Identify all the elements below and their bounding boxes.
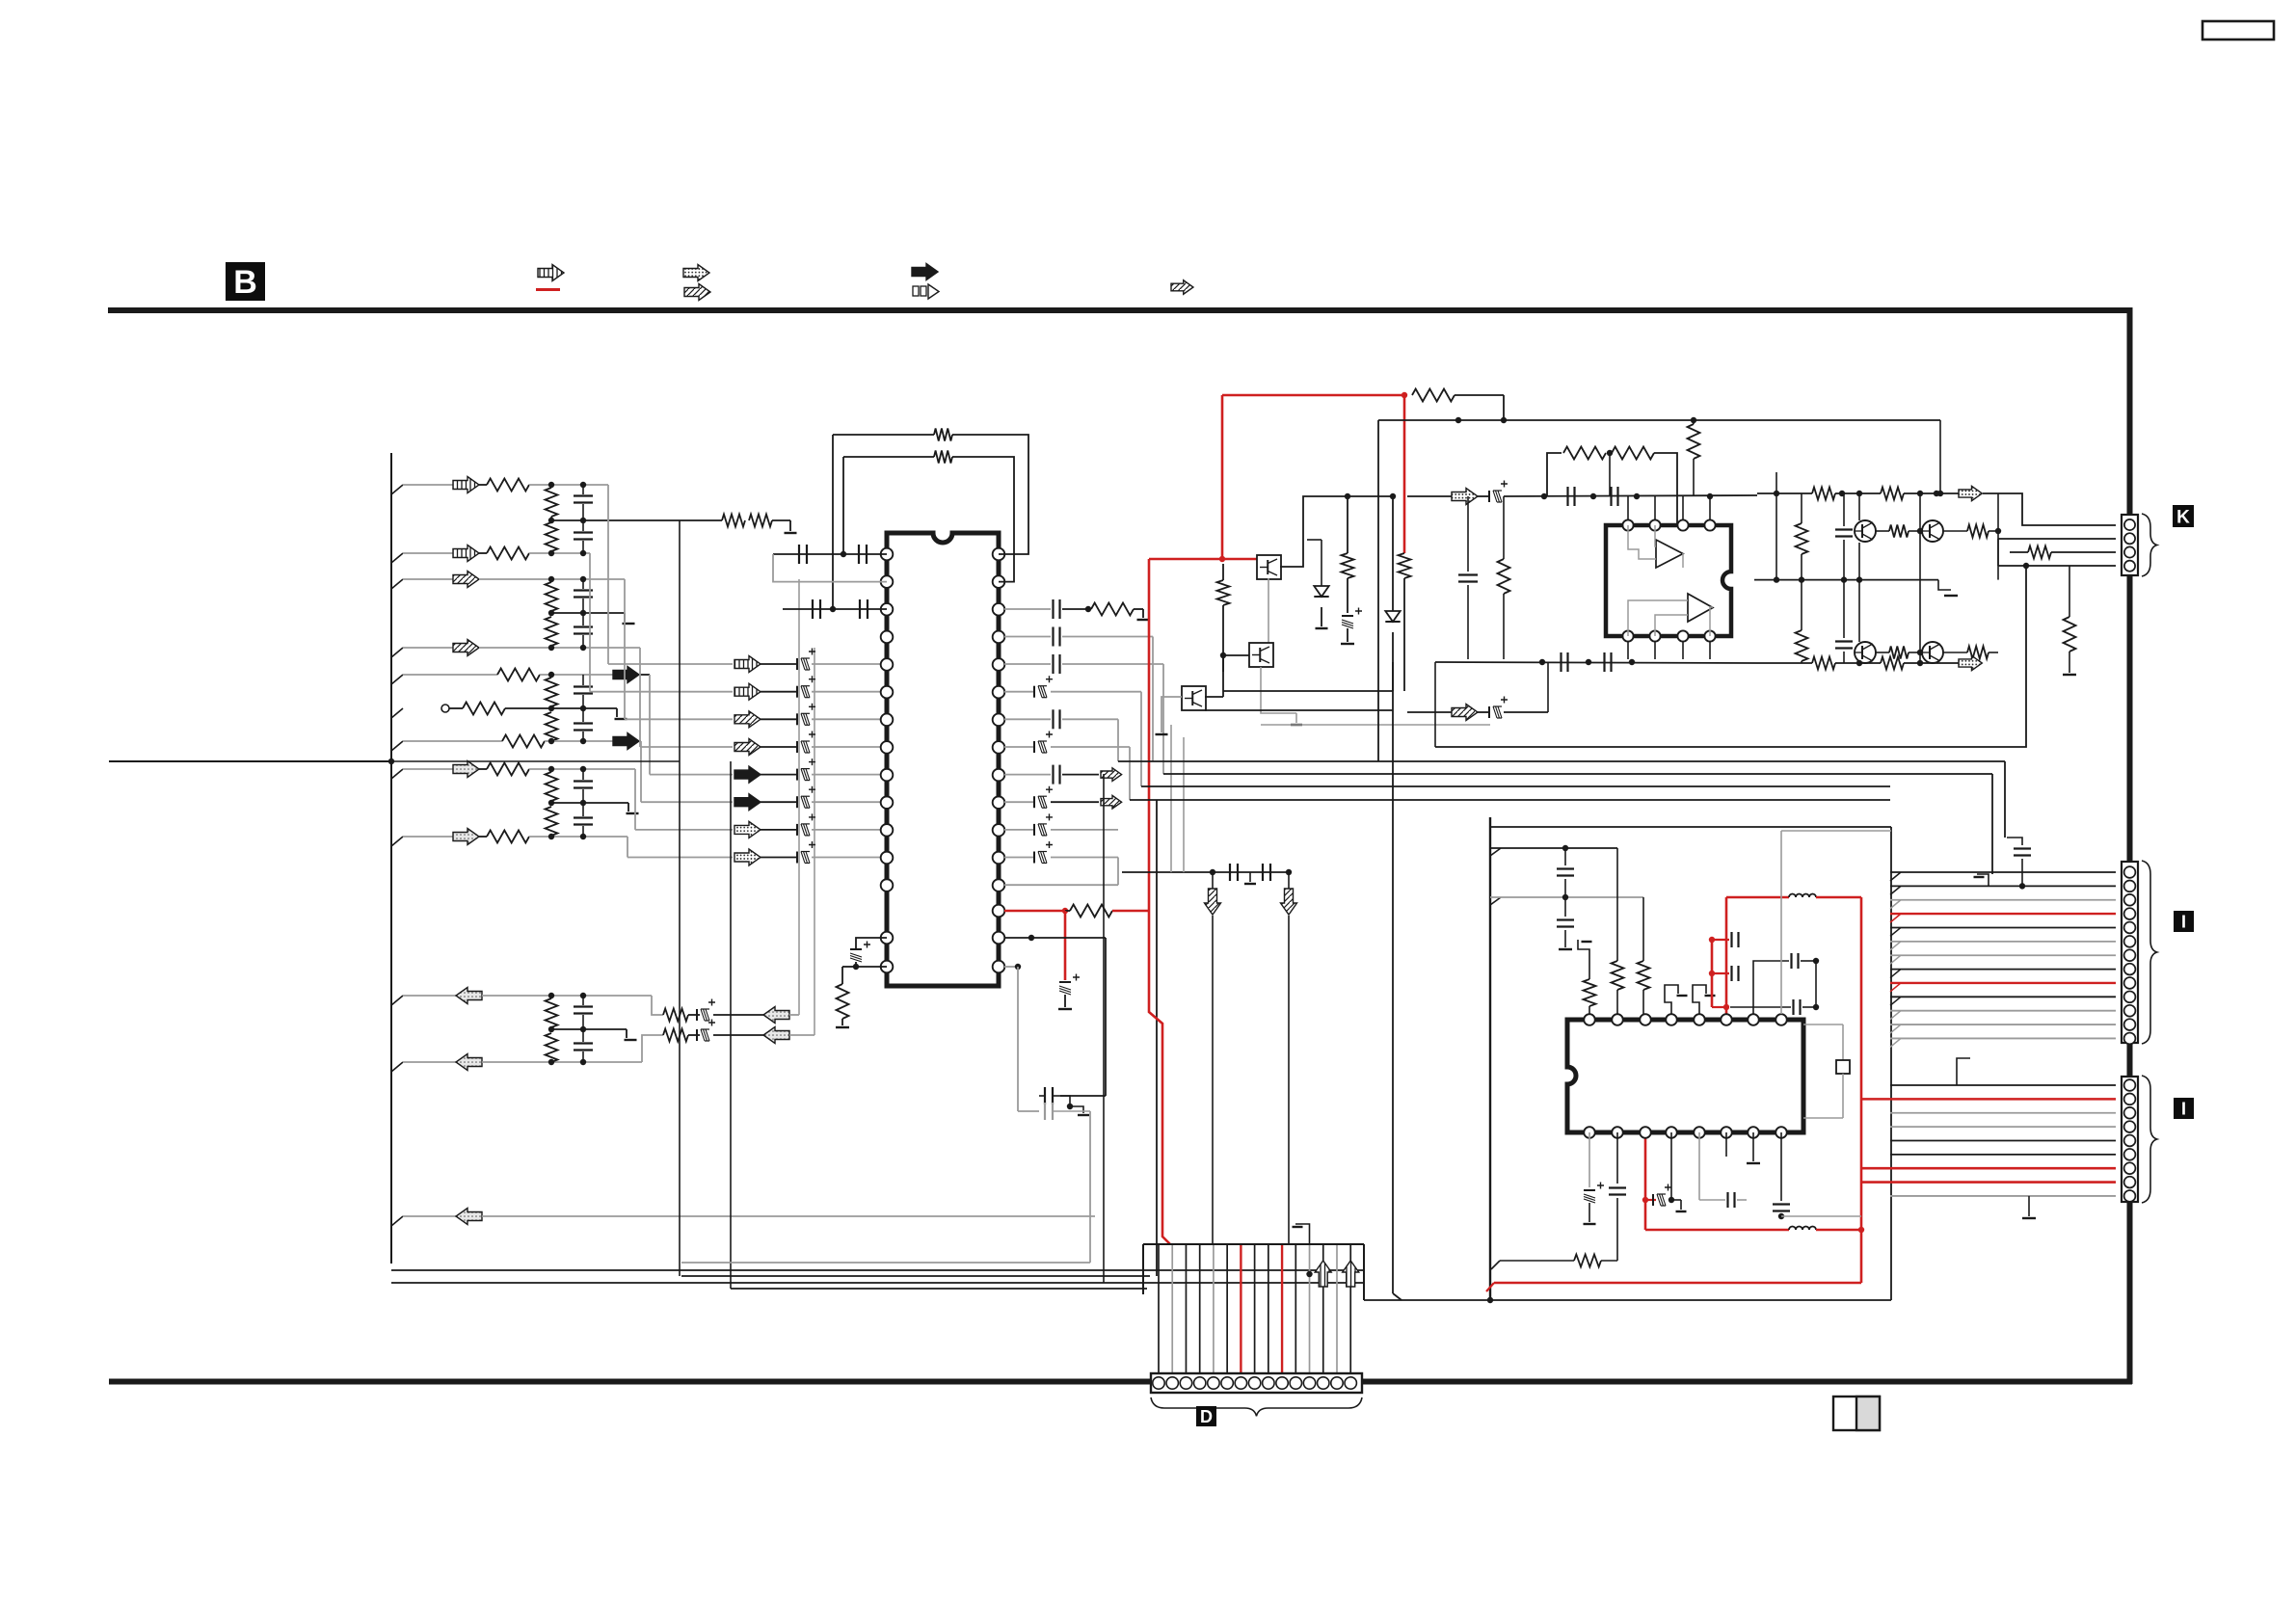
svg-text:D: D [1200, 1407, 1213, 1426]
svg-text:K: K [2176, 507, 2190, 527]
svg-text:I: I [2181, 912, 2186, 931]
svg-text:I: I [2181, 1099, 2186, 1118]
svg-text:B: B [233, 264, 257, 301]
